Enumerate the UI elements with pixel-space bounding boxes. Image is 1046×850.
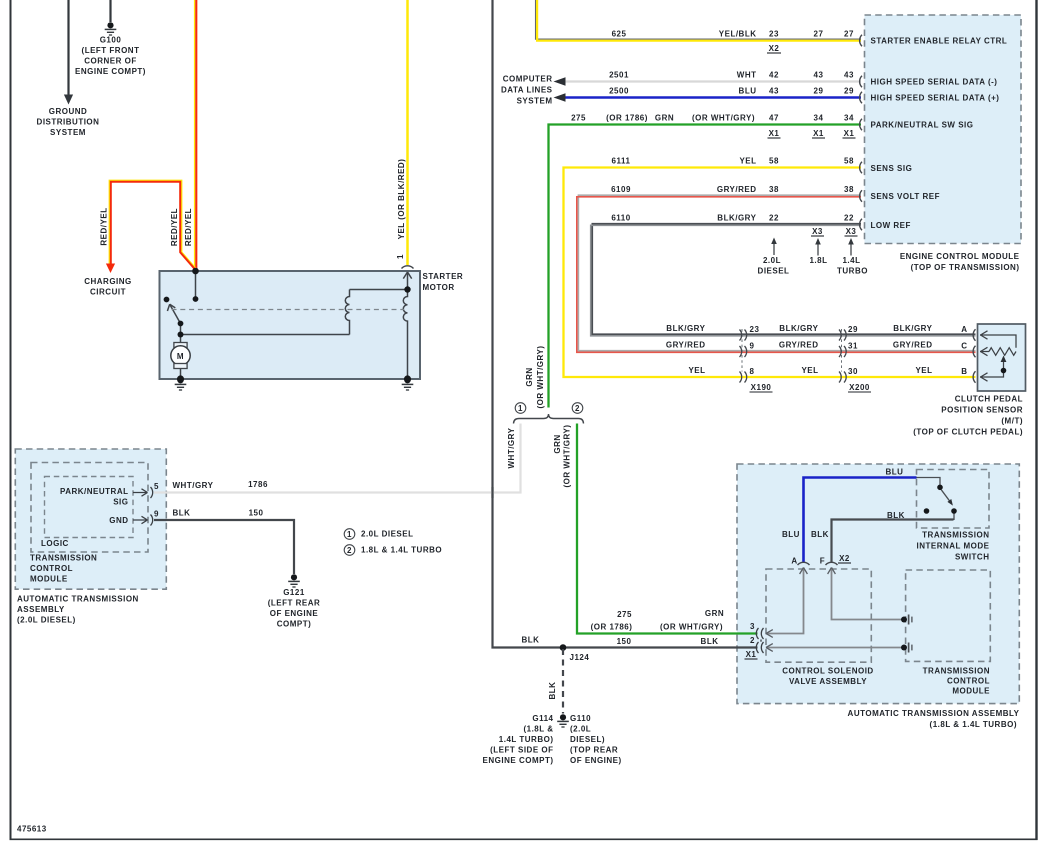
svg-text:(OR WHT/GRY): (OR WHT/GRY) [692,114,755,123]
svg-text:(OR WHT/GRY): (OR WHT/GRY) [562,424,571,487]
ground main winding [402,377,414,390]
svg-text:275: 275 [617,610,632,619]
inline connector tie X190 [741,329,743,372]
ECM X3 arrow 1.4L turbo [850,244,852,256]
svg-text:X1: X1 [813,129,824,138]
svg-text:COMPUTER: COMPUTER [503,75,553,84]
arrow to computer data lines system (BLU) [554,93,566,101]
svg-text:TRANSMISSION: TRANSMISSION [30,554,97,563]
svg-text:X1: X1 [769,129,780,138]
transmission internal mode switch internals [917,478,955,521]
engine control module box [865,15,1022,244]
svg-text:(LEFT FRONT: (LEFT FRONT [82,46,140,55]
svg-text:VALVE ASSEMBLY: VALVE ASSEMBLY [789,677,867,686]
svg-text:30: 30 [848,367,858,376]
arrow into pin A [800,568,808,575]
clutch pedal position sensor box [978,324,1026,391]
svg-text:X2: X2 [769,44,780,53]
svg-text:AUTOMATIC TRANSMISSION ASSEMBL: AUTOMATIC TRANSMISSION ASSEMBLY [848,709,1020,718]
svg-text:HIGH SPEED SERIAL DATA (+): HIGH SPEED SERIAL DATA (+) [871,94,1000,103]
svg-text:43: 43 [814,71,824,80]
svg-text:DISTRIBUTION: DISTRIBUTION [37,118,100,127]
svg-text:31: 31 [848,342,858,351]
svg-text:2: 2 [347,546,352,555]
svg-text:475613: 475613 [17,825,47,834]
svg-text:HIGH SPEED SERIAL DATA (-): HIGH SPEED SERIAL DATA (-) [871,78,998,87]
node motor branch [178,332,184,338]
svg-text:BLU: BLU [782,530,800,539]
control solenoid valve assembly box [766,569,871,662]
svg-text:X2: X2 [839,554,850,563]
svg-text:BLK: BLK [811,530,829,539]
clutch pedal sensor pin connectors A C B [973,329,975,382]
svg-text:6109: 6109 [611,185,631,194]
svg-text:275: 275 [571,114,586,123]
svg-text:1: 1 [518,404,523,413]
svg-text:GND: GND [109,516,128,525]
svg-text:43: 43 [844,71,854,80]
svg-text:29: 29 [848,325,858,334]
svg-text:BLK: BLK [522,636,540,645]
TCM turbo solenoid input upper [901,617,907,623]
svg-text:CIRCUIT: CIRCUIT [90,288,126,297]
svg-text:G100: G100 [100,36,122,45]
svg-text:GRN: GRN [553,434,562,453]
svg-text:GRN: GRN [705,609,724,618]
CSVA internal wire pin2 to TCM solenoid [766,647,902,649]
svg-text:G114: G114 [532,714,553,723]
svg-text:GRN: GRN [655,114,674,123]
CSVA internal wire pin3 to pin A [766,568,902,648]
svg-text:GRY/RED: GRY/RED [779,341,819,350]
legend circle 2 [344,545,355,556]
svg-text:TRANSMISSION: TRANSMISSION [923,667,990,676]
svg-text:BLU: BLU [739,87,757,96]
junction node red/yel at starter [192,268,199,275]
svg-text:BLK: BLK [548,682,557,700]
svg-text:29: 29 [814,87,824,96]
svg-text:GROUND: GROUND [49,107,88,116]
TCM turbo solenoid input lower [901,645,907,651]
svg-text:1.8L: 1.8L [809,256,827,265]
svg-text:ENGINE COMPT): ENGINE COMPT) [483,756,554,765]
svg-text:OF ENGINE: OF ENGINE [270,609,319,618]
motor M brush cap bottom [174,364,187,369]
arrow to charging circuit [106,264,115,274]
wire BLK overdraw at WHT/GRY crossing [491,487,493,498]
svg-text:CONTROL: CONTROL [30,564,73,573]
svg-text:2.0L DIESEL: 2.0L DIESEL [361,530,413,539]
svg-text:LOGIC: LOGIC [41,539,69,548]
svg-text:CLUTCH PEDAL: CLUTCH PEDAL [955,395,1023,404]
svg-text:WHT/GRY: WHT/GRY [507,427,516,468]
wire BLK to junction J124 [493,0,758,648]
svg-text:(OR 1786): (OR 1786) [606,114,648,123]
svg-text:23: 23 [750,325,760,334]
wire BLK to ground distribution system [67,0,69,95]
svg-text:PARK/NEUTRAL: PARK/NEUTRAL [60,487,129,496]
wire GRN (OR WHT/GRY) circuit 275 to control solenoid valve assembly pin 3 [577,424,758,634]
svg-text:TRANSMISSION: TRANSMISSION [922,531,989,540]
node coil junction on main winding branch [404,286,410,292]
svg-text:PARK/NEUTRAL SW SIG: PARK/NEUTRAL SW SIG [871,121,974,130]
switch arm SW [170,304,181,323]
svg-text:SYSTEM: SYSTEM [517,97,553,106]
transmission control module (turbo) box [906,570,991,661]
svg-text:1786: 1786 [248,480,268,489]
svg-text:DIESEL): DIESEL) [570,735,605,744]
svg-text:SENS VOLT REF: SENS VOLT REF [871,192,940,201]
svg-text:(OR 1786): (OR 1786) [591,623,633,632]
ECM X3 arrow 2.0L diesel [773,243,775,255]
svg-text:27: 27 [814,30,824,39]
wire BLK from mode switch to pin F [832,520,954,563]
svg-text:2500: 2500 [609,87,629,96]
svg-text:(LEFT SIDE OF: (LEFT SIDE OF [490,746,553,755]
svg-text:YEL: YEL [739,157,756,166]
wire YEL/BLK circuit 625 to ECM starter enable relay ctrl [536,0,861,39]
svg-text:58: 58 [844,157,854,166]
ground node main winding [404,375,411,382]
automatic transmission assembly (2.0L diesel) box [15,449,166,589]
node solenoid contact [193,296,199,302]
svg-text:A: A [791,557,797,566]
svg-text:BLK/GRY: BLK/GRY [779,324,818,333]
svg-text:2501: 2501 [609,71,629,80]
svg-text:WHT: WHT [737,71,757,80]
svg-text:X1: X1 [844,129,855,138]
node mode switch contact right [951,508,957,514]
svg-text:9: 9 [154,510,159,519]
svg-text:F: F [820,557,825,566]
svg-text:(1.8L &: (1.8L & [523,725,553,734]
svg-text:X1: X1 [746,650,757,659]
wire WHT/GRY circuit 1786 to TCM park/neutral sig [154,424,521,493]
svg-text:(TOP OF TRANSMISSION): (TOP OF TRANSMISSION) [911,263,1020,272]
svg-text:BLU: BLU [886,468,904,477]
wire BLU circuit 2500 high speed serial data [566,96,862,99]
svg-text:M: M [177,352,184,361]
pin 1 entry arrow [403,272,411,279]
logic box [45,477,134,538]
arrow into pin 3 [766,630,773,638]
svg-text:MODULE: MODULE [30,575,68,584]
svg-text:1: 1 [347,530,352,539]
svg-text:58: 58 [769,157,779,166]
ground G121 [288,574,300,587]
inline connectors at X190 [740,330,747,383]
svg-text:8: 8 [750,367,755,376]
TCM diesel pin 5 symbol [133,487,153,526]
wire BLK to G100 [109,0,111,22]
svg-text:G110: G110 [570,714,591,723]
svg-text:BLK: BLK [173,509,191,518]
svg-text:625: 625 [612,30,627,39]
svg-text:GRY/RED: GRY/RED [717,185,757,194]
svg-text:1.8L & 1.4L TURBO: 1.8L & 1.4L TURBO [361,546,442,555]
svg-text:YEL: YEL [915,366,932,375]
node mode switch contact left [924,508,930,514]
svg-text:(TOP REAR: (TOP REAR [570,746,618,755]
svg-text:LOW REF: LOW REF [871,221,911,230]
svg-text:2.0L: 2.0L [763,256,781,265]
node switch pivot [178,321,184,327]
ECM X3 arrow 1.8L [817,244,819,256]
connector bump starter pin 1 [402,266,414,269]
clutch pedal position sensor internals [980,331,1016,381]
svg-text:SWITCH: SWITCH [955,553,990,562]
pull-in coil L1 [345,290,349,335]
svg-text:47: 47 [769,114,779,123]
svg-text:YEL: YEL [688,366,705,375]
arrow to ground distribution system [64,95,73,105]
wire WHT circuit 2501 high speed serial data [566,80,862,82]
svg-text:1.4L TURBO): 1.4L TURBO) [499,735,554,744]
svg-text:X3: X3 [812,227,823,236]
wire YEL (OR BLK/RED) to starter motor pin 1 [406,0,409,265]
svg-text:9: 9 [750,342,755,351]
svg-text:C: C [961,342,967,351]
splice brace 1/2 [514,414,584,424]
starter motor internal wire from RED/YEL [167,271,411,379]
wiper arrow [1001,356,1007,363]
svg-text:AUTOMATIC TRANSMISSION: AUTOMATIC TRANSMISSION [17,595,139,604]
svg-text:CONTROL: CONTROL [947,677,990,686]
connector bump pin F [826,562,838,565]
svg-text:RED/YEL: RED/YEL [170,208,179,246]
CSVA internal wire pin F to TCM solenoid [832,568,902,620]
svg-text:YEL (OR BLK/RED): YEL (OR BLK/RED) [397,159,406,240]
svg-text:2: 2 [750,636,755,645]
wire coil top to main [350,289,408,291]
motor M body [171,346,190,365]
ground node motor [177,375,184,382]
node switch fixed contact [164,297,170,303]
svg-text:MOTOR: MOTOR [423,283,455,292]
svg-text:YEL/BLK: YEL/BLK [719,30,757,39]
wire arm to node [180,324,182,335]
wire BLU to transmission internal mode switch [804,478,917,563]
svg-text:A: A [961,325,967,334]
node sensor wiper [1001,368,1007,374]
svg-text:(TOP OF CLUTCH PEDAL): (TOP OF CLUTCH PEDAL) [913,428,1023,437]
arrow into pin 2 [766,644,773,652]
control solenoid valve assembly pin 2 connector [756,642,763,653]
wire motor branch [180,335,182,343]
svg-text:YEL: YEL [801,366,818,375]
svg-text:G121: G121 [283,588,305,597]
svg-text:MODULE: MODULE [952,687,990,696]
legend circle 1 [344,529,355,540]
automatic transmission assembly (1.8L/1.4L turbo) box [737,464,1019,704]
wire BLK/GRY circuit 6110 low ref [592,224,975,335]
svg-text:X3: X3 [846,227,857,236]
svg-text:ENGINE CONTROL MODULE: ENGINE CONTROL MODULE [900,252,1020,261]
svg-text:34: 34 [844,114,854,123]
svg-text:GRY/RED: GRY/RED [893,341,933,350]
svg-text:150: 150 [249,509,264,518]
svg-text:RED/YEL: RED/YEL [100,207,109,245]
svg-text:CORNER OF: CORNER OF [84,57,137,66]
dashed solenoid linkage [172,309,405,311]
svg-text:22: 22 [769,214,779,223]
wire RED/YEL to charging circuit [109,180,196,268]
svg-text:SYSTEM: SYSTEM [50,128,86,137]
svg-text:POSITION SENSOR: POSITION SENSOR [941,406,1023,415]
svg-text:(OR WHT/GRY): (OR WHT/GRY) [536,345,545,408]
svg-text:1: 1 [396,254,405,259]
ground G114/G110 [557,714,569,727]
svg-text:GRN: GRN [525,367,534,386]
svg-text:BLK/GRY: BLK/GRY [717,214,756,223]
svg-text:BLK: BLK [701,637,719,646]
svg-text:GRY/RED: GRY/RED [666,341,706,350]
svg-text:B: B [961,367,967,376]
svg-text:6111: 6111 [612,157,631,166]
wire node to pull-in coil [181,334,350,336]
svg-text:WHT/GRY: WHT/GRY [173,481,214,490]
svg-text:6110: 6110 [611,214,630,223]
svg-text:(LEFT REAR: (LEFT REAR [268,599,321,608]
svg-text:23: 23 [769,30,779,39]
TCM diesel pin 9 symbol [133,516,148,523]
ground G100 [105,22,117,35]
motor M brush cap top [174,343,187,348]
node 2 circle [572,403,583,414]
wire GRY/RED circuit 6109 sens volt ref [578,195,975,351]
svg-text:(1.8L & 1.4L TURBO): (1.8L & 1.4L TURBO) [930,720,1017,729]
svg-text:5: 5 [154,482,159,491]
svg-text:38: 38 [844,185,854,194]
svg-text:2: 2 [575,404,580,413]
svg-text:ASSEMBLY: ASSEMBLY [17,605,65,614]
mode switch arm arrow [947,499,953,506]
connector bump pin A [798,562,810,565]
svg-text:BLK/GRY: BLK/GRY [666,324,705,333]
svg-text:3: 3 [750,622,755,631]
svg-text:(2.0L: (2.0L [570,725,591,734]
svg-text:BLK/GRY: BLK/GRY [893,324,932,333]
svg-text:DATA LINES: DATA LINES [501,86,553,95]
arrow to computer data lines system (WHT) [554,77,566,85]
sensor wire A to resistor top [980,335,1016,348]
inline connectors at X200 [839,330,846,383]
svg-text:TURBO: TURBO [837,267,868,276]
arrow into pin F [828,568,836,575]
sensor wire B wiper [980,362,1004,378]
junction J124 [560,644,567,651]
control solenoid valve assembly pin 3 connector [756,628,763,653]
svg-text:OF ENGINE): OF ENGINE) [570,756,622,765]
inline connector tie X200 [841,329,843,372]
svg-text:SENS SIG: SENS SIG [871,164,913,173]
svg-text:COMPT): COMPT) [277,620,312,629]
svg-text:150: 150 [617,637,632,646]
svg-text:(2.0L DIESEL): (2.0L DIESEL) [17,616,76,625]
svg-text:ENGINE COMPT): ENGINE COMPT) [75,67,146,76]
svg-text:29: 29 [844,87,854,96]
ground motor [175,377,187,390]
svg-text:38: 38 [769,185,779,194]
svg-text:43: 43 [769,87,779,96]
starter motor U1 box [160,271,421,379]
sensor wire C [980,351,989,353]
wire BLK circuit 150 from TCM gnd to G121 [154,520,294,574]
svg-text:CONTROL SOLENOID: CONTROL SOLENOID [782,667,873,676]
svg-text:(M/T): (M/T) [1001,417,1023,426]
resistor R1 zigzag [989,348,1016,356]
svg-text:BLK: BLK [887,511,905,520]
svg-text:(OR WHT/GRY): (OR WHT/GRY) [660,623,723,632]
svg-text:J124: J124 [570,653,590,662]
wire RED/YEL to starter motor [194,0,196,270]
svg-text:27: 27 [844,30,854,39]
svg-text:X190: X190 [751,383,772,392]
node mode switch common [937,485,943,491]
wire YEL circuit 6111 sens sig [564,168,976,378]
svg-text:42: 42 [769,71,779,80]
transmission internal mode switch box [917,470,990,529]
svg-text:CHARGING: CHARGING [84,277,132,286]
ECM pin connectors [860,35,862,230]
svg-text:22: 22 [844,214,854,223]
svg-text:STARTER ENABLE RELAY CTRL: STARTER ENABLE RELAY CTRL [871,37,1008,46]
svg-text:1.4L: 1.4L [842,256,860,265]
transmission control module (diesel) box [31,463,148,553]
svg-text:RED/YEL: RED/YEL [184,208,193,246]
wire BLK dashed to G114/G110 [562,649,564,714]
svg-text:INTERNAL MODE: INTERNAL MODE [916,542,989,551]
svg-text:34: 34 [814,114,824,123]
tie pins 3/2 [760,640,762,643]
wire GRN circuit 275 park/neutral sw sig [549,125,862,408]
svg-text:SIG: SIG [113,498,128,507]
svg-text:STARTER: STARTER [423,272,464,281]
node 1 circle [515,403,526,414]
hold-in coil L2 on main branch [403,272,407,379]
svg-text:X200: X200 [849,383,870,392]
svg-text:DIESEL: DIESEL [758,267,790,276]
